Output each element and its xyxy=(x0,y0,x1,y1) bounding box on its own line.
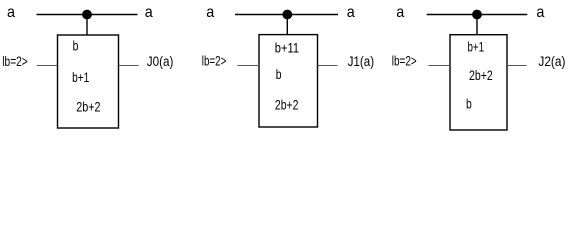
svg-text:b: b xyxy=(73,37,79,53)
svg-text:b: b xyxy=(276,66,282,82)
wire: control line a of gate J2 xyxy=(427,14,528,16)
junction dot on control line (gate J1) xyxy=(282,10,292,20)
junction dot on control line (gate J2) xyxy=(472,10,482,20)
svg-text:lb=2>: lb=2> xyxy=(202,53,227,68)
svg-text:a: a xyxy=(396,4,404,21)
svg-text:a: a xyxy=(145,4,153,21)
wire: input lead into gate J2 xyxy=(429,65,451,67)
svg-text:2b+2: 2b+2 xyxy=(275,96,299,112)
junction dot on control line (gate J0) xyxy=(82,10,92,20)
wire: control line a of gate J1 xyxy=(235,14,338,16)
wire: stub from junction dot to gate J2 box xyxy=(476,15,478,35)
svg-text:lb=2>: lb=2> xyxy=(2,54,27,69)
gate box U1: J0 xyxy=(58,35,119,128)
wire: stub from junction dot to gate J1 box xyxy=(286,15,288,35)
wire: output lead out of gate J0 xyxy=(119,65,139,67)
svg-text:b+11: b+11 xyxy=(275,39,299,55)
svg-text:b+1: b+1 xyxy=(468,38,485,54)
svg-text:b+1: b+1 xyxy=(72,69,89,85)
svg-text:b: b xyxy=(466,95,472,111)
wire: input lead into gate J0 xyxy=(37,65,58,67)
svg-text:lb=2>: lb=2> xyxy=(392,53,417,68)
svg-text:a: a xyxy=(206,4,214,21)
svg-text:a: a xyxy=(536,4,544,21)
wire: stub from junction dot to gate J0 box xyxy=(86,15,88,36)
svg-text:2b+2: 2b+2 xyxy=(469,67,493,83)
svg-text:2b+2: 2b+2 xyxy=(76,99,101,115)
wire: output lead out of gate J2 xyxy=(507,65,527,67)
svg-text:J1(a): J1(a) xyxy=(348,54,375,69)
wire: output lead out of gate J1 xyxy=(318,65,338,67)
wire: control line a of gate J0 xyxy=(37,14,138,16)
gate box U2: J1 xyxy=(259,35,318,127)
svg-text:a: a xyxy=(347,4,355,21)
svg-text:J2(a): J2(a) xyxy=(538,54,565,69)
wire: input lead into gate J1 xyxy=(238,65,260,67)
svg-text:a: a xyxy=(7,4,15,21)
gate box U3: J2 xyxy=(450,35,507,130)
svg-text:J0(a): J0(a) xyxy=(147,54,174,69)
